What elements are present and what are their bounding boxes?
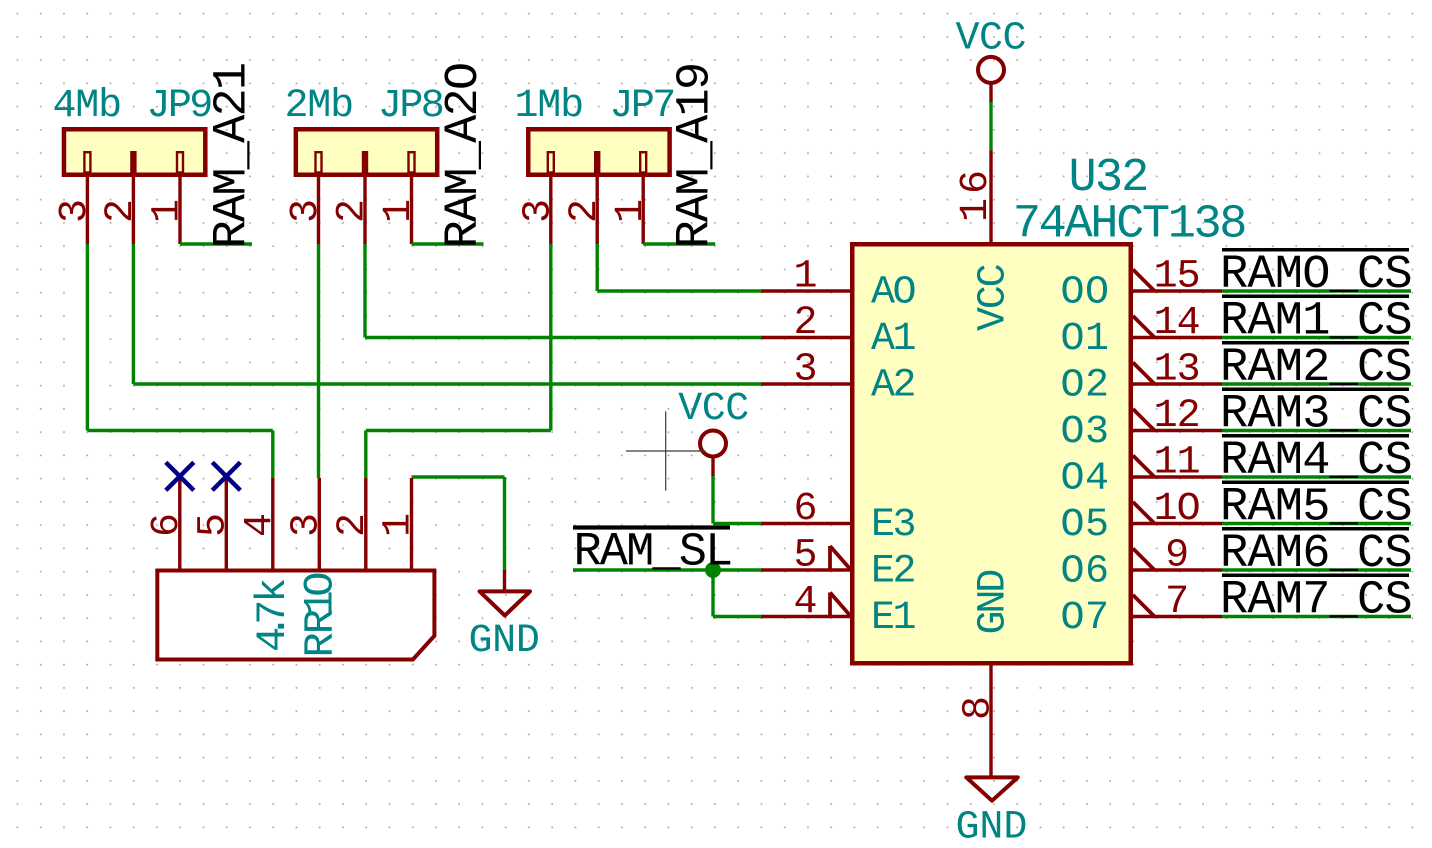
svg-text:1: 1 [377,513,422,537]
svg-text:2: 2 [331,513,376,537]
svg-text:AO: AO [871,271,915,316]
svg-text:JP9: JP9 [147,84,212,129]
svg-text:RAM2_CS: RAM2_CS [1220,342,1412,395]
svg-text:RAM6_CS: RAM6_CS [1220,528,1412,581]
svg-text:O4: O4 [1060,457,1109,502]
svg-text:3: 3 [284,199,329,223]
svg-text:4Mb: 4Mb [53,84,121,129]
svg-text:6: 6 [145,513,190,537]
svg-text:JP8: JP8 [378,84,443,129]
svg-text:2: 2 [99,199,144,223]
svg-text:RAM_SL: RAM_SL [574,527,732,580]
svg-text:E3: E3 [871,503,915,548]
svg-text:2: 2 [793,301,817,346]
svg-text:1: 1 [793,255,817,300]
svg-text:9: 9 [1165,534,1188,579]
svg-text:RAM_A19: RAM_A19 [670,64,723,249]
svg-text:GND: GND [468,619,539,664]
svg-text:RAM_A21: RAM_A21 [207,64,260,249]
svg-text:5: 5 [793,534,817,579]
svg-text:3: 3 [516,199,561,223]
svg-text:GND: GND [956,806,1028,848]
svg-text:O1: O1 [1060,317,1109,362]
svg-text:3: 3 [53,199,98,223]
svg-text:E2: E2 [871,550,915,595]
svg-text:O3: O3 [1060,410,1109,455]
svg-text:O6: O6 [1060,550,1109,595]
svg-text:U32: U32 [1069,152,1148,205]
svg-text:O2: O2 [1060,364,1109,409]
svg-text:RAM7_CS: RAM7_CS [1220,575,1412,628]
svg-text:RAM4_CS: RAM4_CS [1220,435,1412,488]
svg-text:O5: O5 [1060,503,1109,548]
svg-text:11: 11 [1154,441,1200,486]
svg-text:VCC: VCC [678,387,749,432]
svg-text:2: 2 [563,199,608,223]
svg-text:5: 5 [191,513,236,537]
svg-text:4: 4 [238,513,283,537]
svg-text:JP7: JP7 [610,84,674,129]
svg-text:7: 7 [1165,580,1188,625]
svg-text:E1: E1 [871,596,916,641]
svg-text:VCC: VCC [955,17,1026,62]
svg-text:4.7k: 4.7k [249,578,297,652]
svg-text:3: 3 [284,513,329,537]
svg-text:OO: OO [1060,271,1109,316]
svg-text:A1: A1 [871,317,916,362]
svg-text:GND: GND [972,571,1017,635]
svg-text:RAM1_CS: RAM1_CS [1220,296,1412,349]
svg-text:1O: 1O [1154,487,1200,532]
svg-text:4: 4 [793,580,817,625]
svg-text:2: 2 [331,199,376,223]
svg-text:RAMO_CS: RAMO_CS [1220,249,1412,302]
svg-text:A2: A2 [871,364,915,409]
svg-text:O7: O7 [1060,596,1109,641]
svg-text:1: 1 [377,199,422,223]
svg-text:RAM_A2O: RAM_A2O [438,64,491,249]
svg-text:RR1O: RR1O [297,572,345,658]
svg-text:VCC: VCC [972,264,1017,331]
svg-text:13: 13 [1154,348,1200,393]
svg-text:1Mb: 1Mb [515,84,583,129]
svg-text:12: 12 [1154,394,1200,439]
svg-text:14: 14 [1154,301,1200,346]
svg-text:2Mb: 2Mb [285,84,353,129]
svg-text:RAM5_CS: RAM5_CS [1220,482,1412,535]
svg-text:1: 1 [146,199,191,223]
svg-text:6: 6 [793,487,817,532]
svg-text:1: 1 [609,199,654,223]
svg-text:74AHCT138: 74AHCT138 [1013,198,1245,251]
svg-text:3: 3 [793,348,817,393]
svg-text:15: 15 [1154,255,1200,300]
svg-text:16: 16 [954,166,999,222]
svg-text:8: 8 [957,696,1002,720]
svg-text:RAM3_CS: RAM3_CS [1220,389,1412,442]
